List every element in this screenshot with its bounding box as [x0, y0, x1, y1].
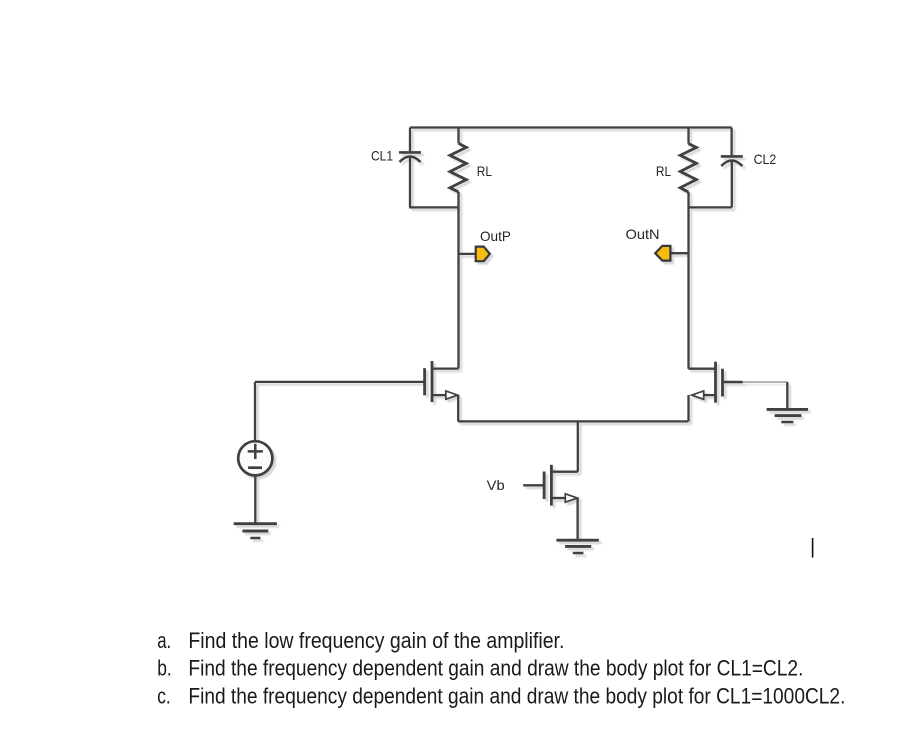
- wire OutP tap: [459, 253, 476, 255]
- wire right loop bottom: [688, 206, 732, 208]
- svg-text:Find the frequency dependent g: Find the frequency dependent gain and dr…: [188, 683, 845, 708]
- port marker OutP: [476, 247, 490, 262]
- transistor M3 source lead: [551, 497, 565, 499]
- transistor M2 channel bar: [714, 362, 717, 403]
- transistor M1 gate bar: [423, 368, 426, 395]
- wire gate of M1 from source: [255, 381, 425, 383]
- svg-text:RL: RL: [477, 164, 492, 179]
- wire M2 gate lead: [723, 381, 743, 383]
- svg-text:Find the frequency dependent g: Find the frequency dependent gain and dr…: [188, 656, 803, 681]
- wire RL left top lead: [457, 128, 459, 144]
- wire left loop bottom: [409, 206, 459, 208]
- transistor M3 drain lead: [551, 471, 577, 473]
- transistor M1 source arrow: [446, 391, 458, 399]
- wire OutN tap: [670, 252, 688, 254]
- resistor RL (left): [450, 143, 466, 192]
- wire CL1 top lead: [409, 128, 411, 152]
- svg-text:CL1: CL1: [371, 148, 393, 163]
- svg-text:Vb: Vb: [487, 478, 505, 493]
- transistor M1 channel bar: [431, 361, 434, 402]
- transistor M2 source arrow: [692, 391, 704, 399]
- transistor M2 drain lead: [689, 368, 716, 370]
- capacitor CL2: [721, 156, 743, 166]
- svg-text:OutN: OutN: [626, 227, 660, 242]
- text cursor: [812, 538, 814, 558]
- wire M3 gate lead: [523, 484, 544, 486]
- wire M2 gate to ground: [786, 382, 788, 409]
- wire M2 source down: [687, 395, 689, 421]
- svg-text:RL: RL: [656, 164, 671, 179]
- svg-text:Find the low frequency gain of: Find the low frequency gain of the ampli…: [188, 628, 564, 653]
- wire RL right top lead: [687, 128, 689, 144]
- wire CL1 bottom lead: [409, 157, 411, 207]
- wire M2 gate thin connector: [743, 381, 788, 383]
- voltage source plus sign: [248, 444, 263, 459]
- svg-text:c.: c.: [157, 683, 171, 708]
- transistor M1 drain lead: [432, 367, 459, 369]
- wire M3 source down: [576, 498, 578, 540]
- ground below V1: [234, 524, 277, 538]
- wire M1 source down: [457, 395, 459, 421]
- transistor M2 gate bar: [721, 369, 724, 397]
- wire VS bottom lead: [254, 475, 256, 523]
- wire CL2 top lead: [730, 128, 732, 156]
- wire VS top lead: [254, 382, 256, 441]
- wire top supply rail: [410, 126, 732, 128]
- wire CL2 bottom lead: [731, 161, 733, 207]
- wire tail rail: [458, 420, 688, 422]
- ground below M3: [556, 540, 599, 553]
- svg-text:OutP: OutP: [480, 229, 511, 244]
- wire OutN branch vertical: [687, 192, 689, 369]
- transistor M3 source arrow: [565, 494, 577, 502]
- transistor M2 source lead: [704, 394, 716, 396]
- voltage source V1 circle: [238, 441, 272, 475]
- resistor RL (right): [680, 144, 696, 192]
- port marker OutN: [655, 246, 670, 261]
- svg-text:a.: a.: [157, 628, 171, 653]
- transistor M1 source lead: [432, 394, 446, 396]
- svg-text:b.: b.: [157, 656, 172, 681]
- transistor M3 channel bar: [550, 465, 553, 506]
- wire OutP branch vertical: [457, 192, 459, 369]
- ground right of M2: [767, 409, 809, 422]
- wire tail center down: [577, 421, 579, 471]
- capacitor CL1: [399, 152, 421, 162]
- voltage source minus sign: [248, 466, 262, 469]
- transistor M3 gate bar: [543, 472, 546, 500]
- svg-text:CL2: CL2: [754, 152, 777, 167]
